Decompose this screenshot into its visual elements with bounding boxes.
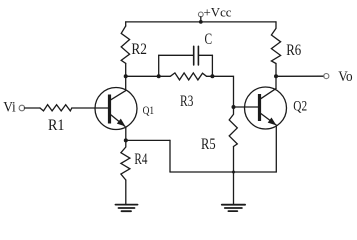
power rail from R2 top to R6 top: [126, 21, 276, 23]
svg-text:Q1: Q1: [143, 103, 155, 117]
transistor Q2: [245, 87, 287, 129]
junction dot: C branch right: [210, 74, 214, 78]
svg-text:R2: R2: [131, 41, 147, 58]
wire: down to bottom rail: [169, 140, 171, 172]
junction dot B: C branch left: [157, 74, 161, 78]
svg-text:Vi: Vi: [3, 100, 16, 116]
transistor Q1: [95, 88, 137, 130]
capacitor branch left riser: [158, 55, 160, 76]
junction dot D: Q2 base / R5 top: [232, 105, 236, 109]
svg-text:+Vcc: +Vcc: [204, 4, 232, 19]
ground under R4: [116, 205, 138, 212]
resistor R4: [121, 140, 130, 203]
svg-text:Vo: Vo: [338, 69, 352, 85]
label R2: [131, 41, 147, 58]
wire: R1 to Q1 base: [72, 107, 108, 109]
wire: R3 right to bend, down to Q2 base node: [207, 76, 234, 107]
wire: node F right: [126, 139, 170, 141]
svg-text:C: C: [205, 31, 213, 48]
svg-text:R1: R1: [48, 117, 65, 134]
svg-text:R6: R6: [286, 42, 301, 59]
label Vi: [3, 100, 16, 116]
node E: collector / R6 junction: [274, 74, 278, 78]
wire: node A to C-box left (y=76 line): [126, 75, 170, 77]
wire: C right plate to right riser: [199, 54, 213, 56]
svg-text:R5: R5: [201, 136, 216, 153]
label +Vcc: [204, 4, 232, 19]
ground under R5: [222, 205, 245, 211]
svg-text:R4: R4: [134, 151, 147, 168]
resistor R1: [40, 105, 72, 111]
svg-text:R3: R3: [180, 93, 193, 110]
label Q1: [143, 103, 155, 117]
label R3: [180, 93, 193, 110]
node A: collector / R2 junction: [124, 74, 128, 78]
label R1: [48, 117, 65, 134]
resistor R6: [271, 22, 280, 76]
wire: riser to C left plate: [159, 54, 194, 56]
label Q2: [293, 99, 307, 115]
node F: Q1 emitter / R4 junction: [124, 138, 128, 142]
capacitor C plates: [194, 46, 199, 65]
resistor R5: [229, 107, 237, 204]
wire: Vi terminal to R1: [24, 107, 40, 109]
label R4: [134, 151, 147, 168]
resistor R2: [121, 22, 129, 76]
wire: bottom rail: [170, 171, 276, 173]
wire: Q2 emitter down to bottom rail: [275, 126, 277, 172]
junction dot at +Vcc tap: [199, 20, 203, 24]
svg-text:Q2: Q2: [293, 99, 307, 115]
resistor R3: [170, 73, 206, 80]
capacitor branch right riser: [211, 55, 213, 76]
wire: Q1 collector up to node A: [125, 76, 127, 90]
junction: R5 lead crosses bottom rail: [232, 171, 235, 174]
label Vo: [338, 69, 352, 85]
wire: node E to Vo terminal: [276, 75, 324, 77]
wire: Q2 collector up to node E: [275, 76, 277, 88]
output terminal Vo: [324, 74, 329, 79]
wire: node D to Q2 base: [234, 106, 259, 108]
label R6: [286, 42, 301, 59]
label C: [205, 31, 213, 48]
input terminal Vi: [19, 105, 25, 111]
wire: Q1 emitter down to node F: [125, 127, 127, 140]
terminal +Vcc: [198, 12, 203, 22]
label R5: [201, 136, 216, 153]
